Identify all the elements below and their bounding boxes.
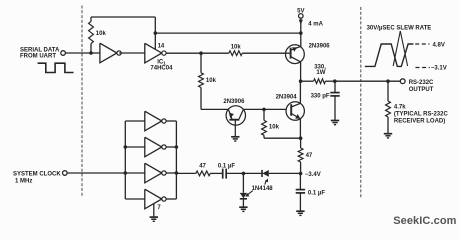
wire to Q2 emitter	[201, 108, 228, 110]
svg-text:0.1 µF: 0.1 µF	[218, 164, 235, 170]
capacitor 330 pF	[330, 92, 339, 94]
wire clock input run	[67, 172, 125, 174]
svg-text:2N3904: 2N3904	[276, 95, 298, 101]
svg-text:14: 14	[158, 43, 165, 49]
current arrow 4 mA	[299, 20, 303, 25]
wire Q1 base	[286, 52, 291, 54]
ground (Q2 base)	[231, 136, 239, 138]
wire 330pF to ground	[334, 96, 336, 120]
square-wave symbol (serial data)	[38, 63, 74, 72]
wire feedback top run	[91, 16, 155, 18]
wire IC1 pin 7 stub	[153, 204, 155, 217]
svg-text:47: 47	[306, 153, 313, 159]
wire right bus (inverter bank)	[175, 121, 177, 199]
wire left bus (inverter bank)	[124, 121, 126, 199]
resistor 10k (Q3 base to emitter)	[263, 109, 265, 120]
wire stub row3 right	[166, 172, 176, 174]
RS-232C output terminal	[400, 79, 405, 84]
svg-text:SYSTEM CLOCK: SYSTEM CLOCK	[13, 171, 61, 177]
dashed level -3.1V	[416, 67, 430, 69]
leader line to rising edge	[400, 31, 407, 66]
svg-text:2N3906: 2N3906	[309, 44, 331, 50]
svg-text:330 pF: 330 pF	[311, 93, 330, 99]
ground (D2)	[239, 206, 247, 208]
dashed partition line (left)	[81, 6, 83, 197]
node charge-pump junction	[242, 172, 246, 176]
node right bus row2	[175, 145, 179, 149]
node input/feedback junction	[89, 51, 93, 55]
wire rail to 5V node	[155, 32, 300, 34]
node 330/cap junction	[333, 79, 337, 83]
wire to 330pF	[334, 81, 336, 92]
node IC1b output junction	[199, 51, 203, 55]
dashed partition line (right)	[360, 7, 362, 198]
node pin-14 / 5V rail junction	[154, 31, 158, 35]
svg-text:4.7k: 4.7k	[394, 104, 406, 110]
serial data input terminal	[61, 51, 66, 56]
svg-text:4.8V: 4.8V	[433, 42, 445, 48]
wire Q3 emitter down	[299, 119, 301, 138]
resistor 47 (clock drive)	[176, 172, 196, 174]
ground (IC1 pin 7)	[150, 216, 158, 218]
node Q1 collector junction	[299, 79, 303, 83]
node 5V rail junction	[299, 31, 303, 35]
wire 10k to Q1 base	[242, 52, 285, 54]
svg-text:1W: 1W	[316, 70, 325, 76]
RS-232 output waveform	[365, 44, 414, 66]
ground (0.1 uF right)	[296, 210, 304, 212]
wire -3.4V node to 0.1uF	[299, 174, 301, 190]
system clock input terminal	[63, 171, 68, 176]
resistor 330 ohm 1W	[301, 80, 314, 82]
resistor 47 (emitter)	[300, 138, 302, 148]
node left bus row3	[124, 171, 128, 175]
node right bus row3	[175, 171, 179, 175]
inverter IC1a	[100, 43, 117, 63]
ground (4.7k load)	[384, 133, 392, 135]
wire IC1 pin 14 stub	[154, 33, 156, 50]
capacitor 0.1 uF (series)	[222, 169, 224, 179]
inverter IC1f (row4)	[145, 189, 162, 209]
inverter IC1d (row2)	[145, 137, 162, 157]
wire stub row1 left	[125, 120, 145, 122]
svg-text:10k: 10k	[206, 78, 217, 84]
wire IC1b output run	[166, 52, 229, 54]
transistor Q3 2N3904	[286, 102, 304, 120]
5V supply terminal	[299, 14, 304, 19]
node -3.4V	[299, 172, 303, 176]
svg-text:30V/µSEC SLEW RATE: 30V/µSEC SLEW RATE	[367, 26, 432, 32]
resistor 4.7k (receiver load)	[387, 81, 389, 101]
resistor 10k (IC1b output to Q2 emitter)	[200, 53, 202, 73]
wire 0.1uF to ground	[299, 193, 301, 211]
wire stub row4 right	[166, 198, 176, 200]
wire IC1a out to IC1b in	[119, 52, 145, 54]
wire stub row2 left	[125, 146, 145, 148]
svg-text:2N3906: 2N3906	[223, 99, 245, 105]
svg-text:10k: 10k	[96, 31, 107, 37]
svg-text:RECEIVER LOAD): RECEIVER LOAD)	[394, 118, 445, 124]
node left bus row2	[124, 145, 128, 149]
svg-text:10k: 10k	[269, 125, 280, 131]
svg-text:−3.1V: −3.1V	[431, 66, 447, 72]
svg-text:SeekIC.com: SeekIC.com	[393, 215, 456, 227]
resistor 10k (series to Q1 base)	[229, 51, 242, 56]
leader arrow to D2	[247, 191, 253, 195]
leader arrow to D1	[265, 181, 266, 185]
transistor Q1 2N3906 (top)	[286, 45, 305, 64]
wire Q2 collector to Q3 base	[243, 108, 286, 110]
inverter IC1e (row3)	[145, 163, 162, 183]
wire junction to D1	[243, 172, 262, 174]
wire D1 to -3.4V node	[269, 172, 301, 174]
resistor 10k (feedback)	[90, 44, 92, 54]
svg-text:1 MHz: 1 MHz	[15, 179, 32, 185]
wire serial input to inverter IC1a	[65, 52, 100, 54]
capacitor 0.1 uF (right)	[296, 189, 305, 191]
wire Q1 collector node to Q3 collector	[299, 81, 301, 103]
wire D2 to ground	[242, 199, 244, 207]
dashed level 4.8V	[415, 43, 429, 45]
svg-text:0.1 µF: 0.1 µF	[308, 190, 325, 196]
wire stub row1 right	[166, 120, 176, 122]
ground (330 pF)	[331, 120, 339, 122]
svg-text:74HC04: 74HC04	[150, 66, 173, 72]
wire junction to D2	[242, 173, 244, 192]
svg-text:−3.4V: −3.4V	[305, 172, 321, 178]
svg-text:OUTPUT: OUTPUT	[409, 87, 434, 93]
diode D2 1N4148 (vertical)	[240, 193, 247, 198]
wire 5V node to Q1 emitter	[300, 33, 302, 47]
svg-text:FROM UART: FROM UART	[20, 53, 56, 59]
svg-text:4 mA: 4 mA	[308, 22, 323, 28]
svg-text:1N4148: 1N4148	[252, 186, 274, 192]
leader line to falling edge	[393, 31, 400, 66]
transistor Q2 2N3906 (grounded base)	[226, 106, 245, 125]
inverter IC1b	[145, 43, 162, 63]
wire stub row3 left	[125, 172, 145, 174]
wire cap to diode junction	[227, 172, 244, 174]
diode D1 1N4148 (horizontal)	[261, 170, 263, 177]
svg-text:47: 47	[199, 164, 206, 170]
wire 5V to rail node	[300, 18, 302, 33]
node Q3 emitter junction	[299, 136, 303, 140]
wire 10k to Q3 emitter node	[264, 137, 301, 139]
svg-text:RS-232C: RS-232C	[409, 80, 434, 86]
node output/load junction	[386, 79, 390, 83]
wire stub row2 right	[166, 146, 176, 148]
svg-text:(TYPICAL RS-232C: (TYPICAL RS-232C	[394, 112, 449, 118]
inverter IC1c (row1)	[145, 111, 162, 131]
svg-text:10k: 10k	[231, 45, 242, 51]
wire Q1 collector down	[300, 62, 302, 81]
wire output run	[335, 80, 401, 82]
node Q2/Q3 junction	[262, 108, 266, 112]
wire stub row4 left	[125, 198, 145, 200]
